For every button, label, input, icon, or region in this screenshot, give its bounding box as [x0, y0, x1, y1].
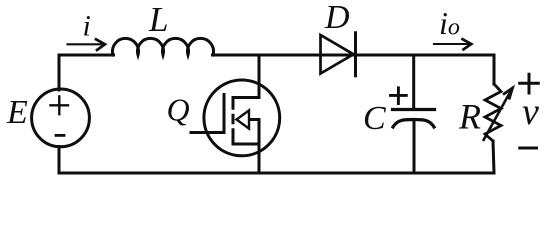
voltage source E circle [32, 89, 90, 147]
transistor Q drain connection [233, 55, 259, 98]
capacitor C flat plate [393, 108, 435, 111]
output voltage minus sign [520, 147, 537, 150]
output current arrow io [434, 43, 471, 45]
wire right branch bottom lead [493, 141, 494, 173]
diode D cathode bar [354, 33, 357, 76]
transistor Q channel segments [232, 96, 235, 145]
wire top rail left segment [59, 54, 114, 57]
current arrow i [68, 43, 105, 45]
svg-text:i: i [83, 10, 91, 43]
inductor L [113, 38, 214, 55]
capacitor plus sign [391, 88, 407, 104]
svg-text:L: L [148, 0, 168, 39]
wire E top lead [58, 55, 61, 90]
wire E bottom lead [58, 147, 61, 174]
transistor Q gate bar [223, 95, 226, 133]
voltage source minus sign [56, 134, 64, 137]
transistor Q gate lead wire [191, 131, 224, 134]
wire top rail right segment [213, 54, 495, 57]
capacitor C curved plate [393, 120, 434, 128]
resistor R zigzag [485, 84, 501, 141]
capacitor C bottom lead [413, 120, 416, 173]
transistor Q body arrow triangle [237, 110, 250, 128]
svg-text:v: v [522, 91, 539, 133]
transistor Q body circle [204, 80, 280, 156]
diode D triangle [321, 35, 354, 74]
svg-text:Q: Q [167, 92, 190, 128]
svg-text:D: D [324, 0, 350, 36]
wire bottom rail [59, 172, 494, 175]
capacitor C top lead [412, 55, 415, 110]
svg-text:R: R [458, 97, 481, 137]
transistor Q body/source vertical to bottom rail [258, 120, 261, 174]
output voltage plus sign [520, 74, 539, 93]
transistor Q body line [248, 118, 259, 121]
wire right branch top lead [493, 55, 496, 84]
voltage source plus sign [51, 97, 69, 115]
svg-text:E: E [6, 94, 28, 131]
svg-text:C: C [363, 100, 386, 137]
resistor R variable arrow [483, 88, 513, 141]
transistor Q source connection [233, 143, 259, 146]
